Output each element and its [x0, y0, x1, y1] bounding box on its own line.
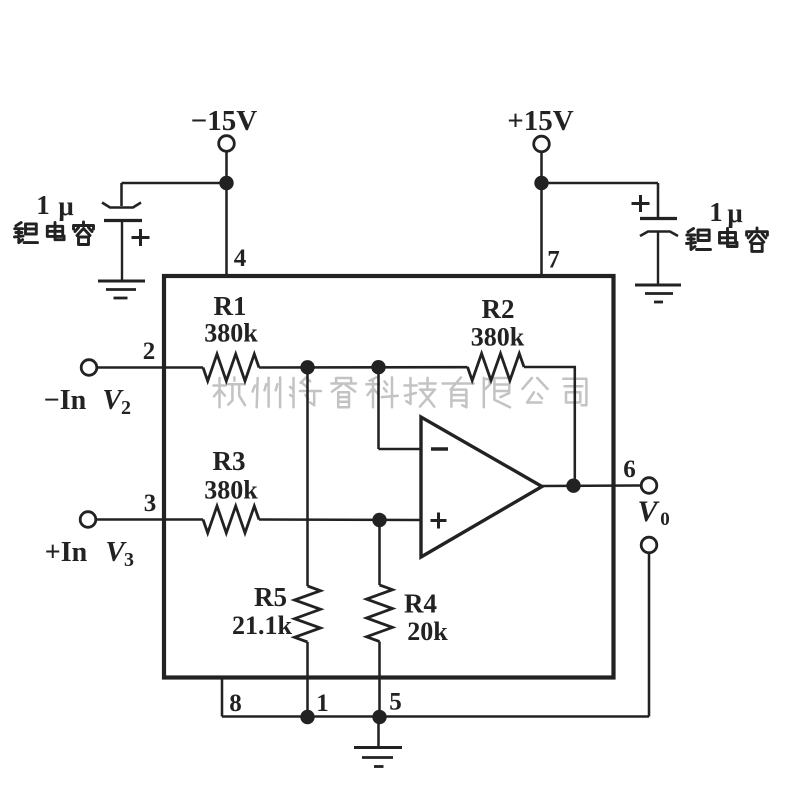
svg-text:3: 3: [144, 490, 157, 517]
pin 4 label: [234, 245, 247, 272]
svg-text:+In: +In: [45, 537, 88, 568]
label C1 tantalum: [15, 222, 94, 245]
svg-text:R4: R4: [404, 589, 437, 619]
svg-text:μ: μ: [727, 198, 742, 228]
wire R4 top: [378, 520, 381, 585]
label C2 value 1u: [709, 197, 742, 228]
terminal V0 pin 6: [641, 478, 657, 494]
svg-text:R5: R5: [254, 582, 287, 612]
junction +15V node: [534, 176, 548, 190]
terminal input 3: [80, 512, 96, 528]
label R5 value 21.1k: [232, 611, 293, 640]
label C1 value 1u: [36, 190, 73, 221]
svg-text:1: 1: [709, 197, 723, 227]
pin 1 label: [316, 690, 329, 717]
label R2: [482, 294, 515, 324]
junction node B: [371, 360, 385, 374]
terminal -15V: [219, 136, 235, 152]
svg-text:V: V: [637, 495, 660, 528]
resistor R2 380k: [468, 354, 525, 381]
resistor R4 20k: [367, 585, 393, 642]
junction node C: [372, 513, 386, 527]
ground bottom: [354, 717, 402, 767]
junction node A: [300, 360, 314, 374]
label R1 value 380k: [204, 319, 258, 348]
label R4 value 20k: [407, 617, 448, 646]
wire R4 bottom: [378, 642, 381, 718]
wire +15V to pin 7: [540, 152, 543, 278]
resistor R3 380k: [203, 506, 259, 533]
svg-text:R1: R1: [214, 291, 247, 321]
svg-text:1: 1: [36, 190, 50, 220]
svg-text:21.1k: 21.1k: [232, 611, 293, 640]
svg-text:3: 3: [124, 549, 134, 571]
pin 8 label: [229, 690, 242, 717]
pin 2 label: [143, 338, 156, 365]
wire op-amp output: [542, 484, 642, 487]
wire R1 to R2: [259, 366, 468, 369]
svg-text:R3: R3: [213, 446, 246, 476]
svg-text:μ: μ: [58, 191, 73, 221]
label V0: [637, 495, 669, 530]
wire -15V node to C1: [122, 183, 227, 206]
label +15V: [507, 105, 574, 137]
watermark text: [213, 377, 586, 407]
resistor R5 21.1k: [295, 586, 321, 642]
ground C2: [635, 285, 681, 302]
svg-text:+15V: +15V: [507, 105, 574, 137]
label R2 value 380k: [471, 323, 525, 352]
wire R3 to op-amp: [259, 518, 421, 521]
wire V0 return to ground rail: [222, 553, 649, 717]
pin 6 label: [623, 456, 636, 483]
pin 3 label: [144, 490, 157, 517]
wire -15V to pin 4: [225, 152, 228, 279]
label +In V3: [45, 536, 134, 571]
svg-text:2: 2: [143, 338, 156, 365]
capacitor C1 1u: [102, 203, 150, 281]
junction pin 5 node: [372, 710, 386, 724]
svg-text:1: 1: [316, 690, 329, 717]
svg-text:7: 7: [547, 247, 560, 274]
op-amp U1 triangle: [421, 417, 542, 557]
wire R5 top: [306, 367, 309, 586]
wire input 2 to R1: [97, 366, 203, 369]
svg-text:0: 0: [660, 509, 670, 530]
label R5: [254, 582, 287, 612]
op-amp package U1 outline: [164, 276, 614, 678]
wire +15V node to C2: [542, 183, 659, 217]
svg-text:−15V: −15V: [191, 105, 258, 137]
svg-text:380k: 380k: [204, 319, 258, 348]
svg-text:20k: 20k: [407, 617, 448, 646]
wire input 3 to R3: [96, 518, 203, 521]
label R4: [404, 589, 437, 619]
wire inverting input: [379, 367, 422, 449]
junction pin 1 node: [300, 710, 314, 724]
label -15V: [191, 105, 258, 137]
resistor R1 380k: [203, 354, 259, 381]
pin 5 label: [389, 689, 402, 716]
label C2 tantalum: [687, 228, 768, 251]
wire R2 to output node: [524, 367, 576, 486]
terminal +15V: [534, 136, 550, 152]
svg-text:5: 5: [389, 689, 402, 716]
svg-text:−In: −In: [44, 385, 87, 416]
label R3: [213, 446, 246, 476]
op-amp plus sign: [431, 513, 447, 529]
pin 7 label: [547, 247, 560, 274]
terminal V0 return: [641, 537, 657, 553]
svg-text:2: 2: [121, 397, 131, 419]
label -In V2: [44, 384, 131, 419]
terminal input 2: [81, 360, 97, 376]
svg-text:6: 6: [623, 456, 636, 483]
label R1: [214, 291, 247, 321]
svg-text:R2: R2: [482, 294, 515, 324]
svg-text:380k: 380k: [204, 476, 258, 505]
wire R5 bottom: [306, 642, 309, 717]
junction output node: [566, 479, 580, 493]
ground C1: [98, 281, 145, 298]
wire pin 8: [221, 677, 224, 717]
svg-text:8: 8: [229, 690, 242, 717]
op-amp minus sign: [431, 447, 448, 450]
junction -15V node: [219, 176, 233, 190]
svg-text:380k: 380k: [471, 323, 525, 352]
svg-text:4: 4: [234, 245, 247, 272]
capacitor C2 1u: [632, 195, 679, 285]
label R3 value 380k: [204, 476, 258, 505]
